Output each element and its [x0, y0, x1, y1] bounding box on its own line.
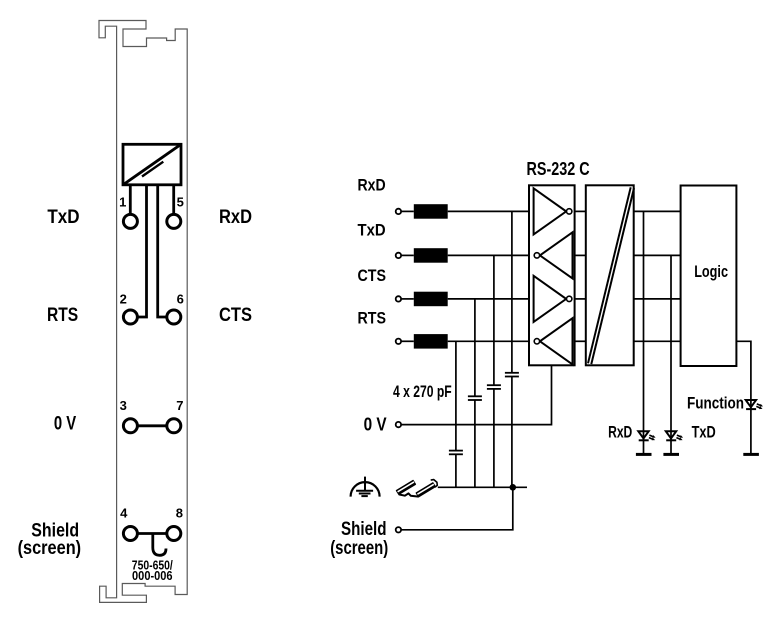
- svg-text:0 V: 0 V: [364, 413, 388, 434]
- svg-text:RxD: RxD: [608, 424, 632, 442]
- svg-text:0 V: 0 V: [54, 413, 77, 434]
- svg-text:RxD: RxD: [358, 177, 386, 195]
- svg-text:RTS: RTS: [47, 305, 78, 326]
- svg-text:8: 8: [176, 506, 183, 521]
- svg-text:TxD: TxD: [692, 424, 716, 442]
- svg-text:CTS: CTS: [358, 267, 387, 285]
- svg-text:RTS: RTS: [358, 310, 387, 328]
- svg-text:4: 4: [120, 506, 128, 521]
- svg-text:1: 1: [119, 195, 126, 210]
- svg-text:RS-232 C: RS-232 C: [527, 158, 590, 179]
- svg-text:7: 7: [176, 398, 183, 413]
- svg-text:(screen): (screen): [330, 538, 388, 559]
- svg-text:5: 5: [177, 195, 184, 210]
- svg-text:Logic: Logic: [694, 263, 728, 281]
- svg-text:2: 2: [120, 291, 127, 306]
- svg-text:000-006: 000-006: [132, 568, 173, 583]
- svg-text:Function: Function: [687, 395, 744, 413]
- svg-text:TxD: TxD: [358, 222, 386, 240]
- svg-text:CTS: CTS: [219, 305, 252, 326]
- svg-text:3: 3: [120, 398, 127, 413]
- svg-text:RxD: RxD: [219, 207, 252, 228]
- svg-text:6: 6: [177, 291, 184, 306]
- svg-text:TxD: TxD: [47, 207, 79, 228]
- svg-text:(screen): (screen): [18, 538, 82, 559]
- svg-text:4 x 270 pF: 4 x 270 pF: [393, 383, 452, 401]
